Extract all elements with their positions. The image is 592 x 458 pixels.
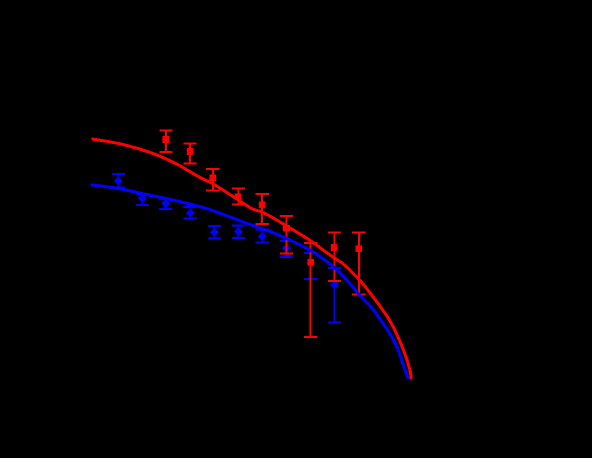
red point R7 marker [307,259,314,266]
blue point B4 error bar [184,207,197,219]
red point R9 marker [356,246,363,253]
blue point B7 marker [258,232,267,241]
blue point B10 marker [330,281,339,290]
blue point B2 error bar [136,194,149,205]
red point R2 error bar [184,143,197,163]
red point R4 marker [235,194,242,201]
blue point B3 error bar [159,199,172,209]
blue point B3 marker [161,199,170,208]
blue point B5 marker [210,228,219,237]
blue point B9 error bar [304,253,317,279]
blue point B8 error bar [280,241,293,257]
red point R5 marker [259,201,266,208]
blue point B5 error bar [208,226,221,239]
blue point B9 marker [306,259,315,268]
blue point B6 error bar [232,226,245,238]
red point R6 marker [283,225,290,232]
blue point B1 error bar [112,174,125,188]
red point R3 error bar [206,169,219,191]
blue point B4 marker [186,209,195,218]
red theory curve [92,139,412,380]
red point R8 error bar [328,233,341,281]
red point R9 error bar [352,233,365,295]
red point R7 error bar [304,243,317,337]
blue point B6 marker [234,227,243,236]
red point R4 error bar [232,189,245,205]
blue point B8 marker [282,244,291,253]
red point R3 marker [210,175,217,182]
red point R1 marker [163,136,170,143]
blue point B1 marker [114,177,123,186]
blue point B10 error bar [328,268,341,322]
blue theory curve [91,185,409,379]
blue point B7 error bar [256,230,269,243]
red point R1 error bar [159,131,172,152]
red point R8 marker [331,244,338,251]
blue point B2 marker [138,194,147,203]
red point R6 error bar [280,216,293,254]
red point R2 marker [187,148,194,155]
red point R5 error bar [256,194,269,224]
